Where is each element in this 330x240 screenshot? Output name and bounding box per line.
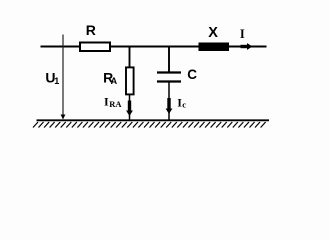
wire: input to resistor R [41, 46, 81, 48]
svg-text:I: I [104, 95, 109, 109]
svg-text:c: c [182, 100, 186, 110]
wire: C branch lower to ground [168, 83, 170, 121]
reactance X [199, 43, 230, 52]
wire: RA branch lower to ground [129, 95, 131, 121]
label I_RA [104, 95, 122, 110]
wire: RA branch upper [129, 46, 131, 68]
svg-text:RA: RA [109, 99, 122, 109]
voltage arrow U1 (input terminal line down to ground) [61, 35, 66, 120]
svg-text:I: I [240, 27, 245, 41]
label RA [103, 69, 118, 86]
wire: C branch upper [168, 46, 170, 72]
resistor RA [126, 67, 134, 94]
svg-text:C: C [187, 67, 197, 82]
svg-text:A: A [111, 76, 118, 86]
label U1 [45, 70, 59, 86]
label I_c [177, 96, 186, 110]
current arrow I_c [166, 98, 173, 114]
svg-text:1: 1 [54, 76, 59, 86]
current arrow I [241, 43, 253, 50]
current arrow I_RA [126, 101, 133, 117]
wire: X to output [229, 46, 267, 48]
ground [33, 120, 269, 127]
svg-text:X: X [208, 25, 218, 41]
svg-text:R: R [86, 22, 96, 38]
wire: R to X [111, 46, 199, 48]
capacitor C [157, 73, 181, 82]
resistor R [80, 43, 110, 52]
